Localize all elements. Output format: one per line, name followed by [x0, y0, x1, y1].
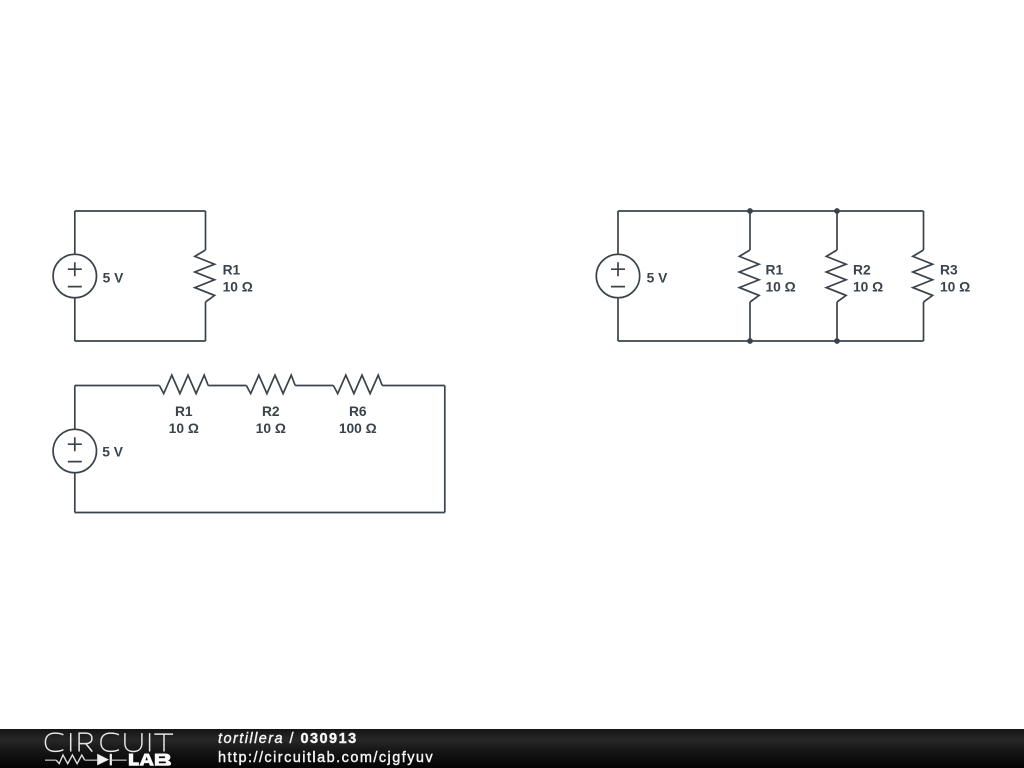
wire right upper (circuit 3) — [923, 211, 925, 250]
wire top (circuit 1) — [75, 210, 206, 212]
svg-text:5 V: 5 V — [647, 271, 669, 286]
logo letter C — [45, 733, 63, 751]
logo diode triangle — [97, 754, 109, 766]
svg-text:5 V: 5 V — [103, 271, 125, 286]
logo letter R — [79, 733, 92, 752]
logo letter I — [70, 733, 72, 751]
wire left upper (circuit 2) — [74, 386, 76, 430]
footer bar — [0, 729, 1024, 768]
logo letter A of LAB — [139, 754, 154, 766]
resistor R2 (circuit 2) — [246, 375, 295, 394]
wire top segment b (circuit 2) — [208, 385, 246, 387]
resistor R6 (circuit 2) — [333, 375, 382, 394]
wire top segment a (circuit 2) — [75, 385, 160, 387]
wire top segment c (circuit 2) — [295, 385, 333, 387]
node junction top branch 1 (circuit 3) — [747, 208, 753, 214]
svg-text:10 Ω: 10 Ω — [169, 421, 199, 436]
svg-text:10 Ω: 10 Ω — [256, 421, 286, 436]
wire right lower (circuit 3) — [923, 302, 925, 341]
svg-text:10 Ω: 10 Ω — [940, 279, 970, 294]
value label 10 Ω (circuit 3 R3) — [940, 279, 970, 294]
node junction bottom branch 2 (circuit 3) — [834, 338, 840, 344]
logo resistor zigzag — [56, 755, 85, 764]
label R1 (circuit 3) — [766, 262, 784, 277]
label R2 (circuit 3) — [853, 262, 871, 277]
wire left upper (circuit 3) — [617, 211, 619, 254]
wire right lower (circuit 1) — [205, 302, 207, 341]
wire left upper (circuit 1) — [74, 211, 76, 254]
wire bottom (circuit 3) — [618, 340, 924, 342]
logo wire right of diode — [112, 760, 127, 762]
svg-text:10 Ω: 10 Ω — [766, 279, 796, 294]
logo letter I — [149, 733, 151, 751]
value label 5 V (circuit 3 V1) — [647, 271, 669, 286]
wire bottom (circuit 2) — [75, 512, 445, 514]
wire branch 1 upper (circuit 3) — [749, 211, 751, 250]
value label 10 Ω (circuit 2 R1) — [169, 421, 199, 436]
logo letter L of LAB — [129, 754, 139, 766]
logo resistor squiggle lead left — [45, 760, 56, 762]
svg-text:R2: R2 — [853, 262, 871, 277]
label R3 (circuit 3) — [940, 262, 958, 277]
svg-text:R1: R1 — [175, 404, 193, 419]
wire top segment d (circuit 2) — [382, 385, 445, 387]
value label 100 Ω (circuit 2 R6) — [339, 421, 377, 436]
logo letter B of LAB — [155, 754, 171, 766]
svg-text:R1: R1 — [223, 262, 241, 277]
logo letter C — [101, 733, 119, 751]
logo letter U — [125, 733, 142, 751]
wire branch 2 lower (circuit 3) — [836, 302, 838, 341]
resistor R2 (circuit 3) — [826, 250, 846, 302]
logo wire between resistor and diode — [85, 760, 97, 762]
wire right upper (circuit 1) — [205, 211, 207, 250]
voltage source V1 (circuit 3) — [596, 254, 639, 297]
wire top (circuit 3) — [618, 210, 924, 212]
resistor R1 (circuit 3) — [739, 250, 759, 302]
svg-text:R6: R6 — [349, 404, 367, 419]
voltage source V1 (circuit 1) — [53, 254, 96, 297]
resistor R1 (circuit 1) — [195, 250, 215, 302]
footer text — [218, 729, 434, 768]
wire left lower (circuit 2) — [74, 473, 76, 513]
value label 10 Ω (circuit 1 R1) — [223, 279, 253, 294]
wire bottom (circuit 1) — [75, 340, 206, 342]
svg-text:10 Ω: 10 Ω — [223, 279, 253, 294]
wire branch 2 upper (circuit 3) — [836, 211, 838, 250]
wire left lower (circuit 3) — [617, 298, 619, 341]
svg-text:R2: R2 — [262, 404, 280, 419]
svg-text:10 Ω: 10 Ω — [853, 279, 883, 294]
svg-text:5 V: 5 V — [102, 445, 124, 460]
label R2 (circuit 2) — [262, 404, 280, 419]
wire left lower (circuit 1) — [74, 298, 76, 341]
value label 5 V (circuit 2 V1) — [102, 445, 124, 460]
resistor R1 (circuit 2) — [159, 375, 208, 394]
value label 5 V (circuit 1 V1) — [103, 271, 125, 286]
label R6 (circuit 2) — [349, 404, 367, 419]
label R1 (circuit 1) — [223, 262, 241, 277]
node junction bottom branch 1 (circuit 3) — [747, 338, 753, 344]
wire branch 1 lower (circuit 3) — [749, 302, 751, 341]
CircuitLab logo — [0, 729, 190, 768]
svg-text:100 Ω: 100 Ω — [339, 421, 377, 436]
voltage source V1 (circuit 2) — [53, 429, 96, 472]
logo diode bar — [110, 754, 112, 766]
value label 10 Ω (circuit 3 R2) — [853, 279, 883, 294]
value label 10 Ω (circuit 2 R2) — [256, 421, 286, 436]
value label 10 Ω (circuit 3 R1) — [766, 279, 796, 294]
wire right (circuit 2) — [444, 386, 446, 513]
label R1 (circuit 2) — [175, 404, 193, 419]
resistor R3 (circuit 3) — [913, 250, 933, 302]
logo letter T — [154, 734, 173, 751]
svg-text:R1: R1 — [766, 262, 784, 277]
svg-text:R3: R3 — [940, 262, 958, 277]
node junction top branch 2 (circuit 3) — [834, 208, 840, 214]
